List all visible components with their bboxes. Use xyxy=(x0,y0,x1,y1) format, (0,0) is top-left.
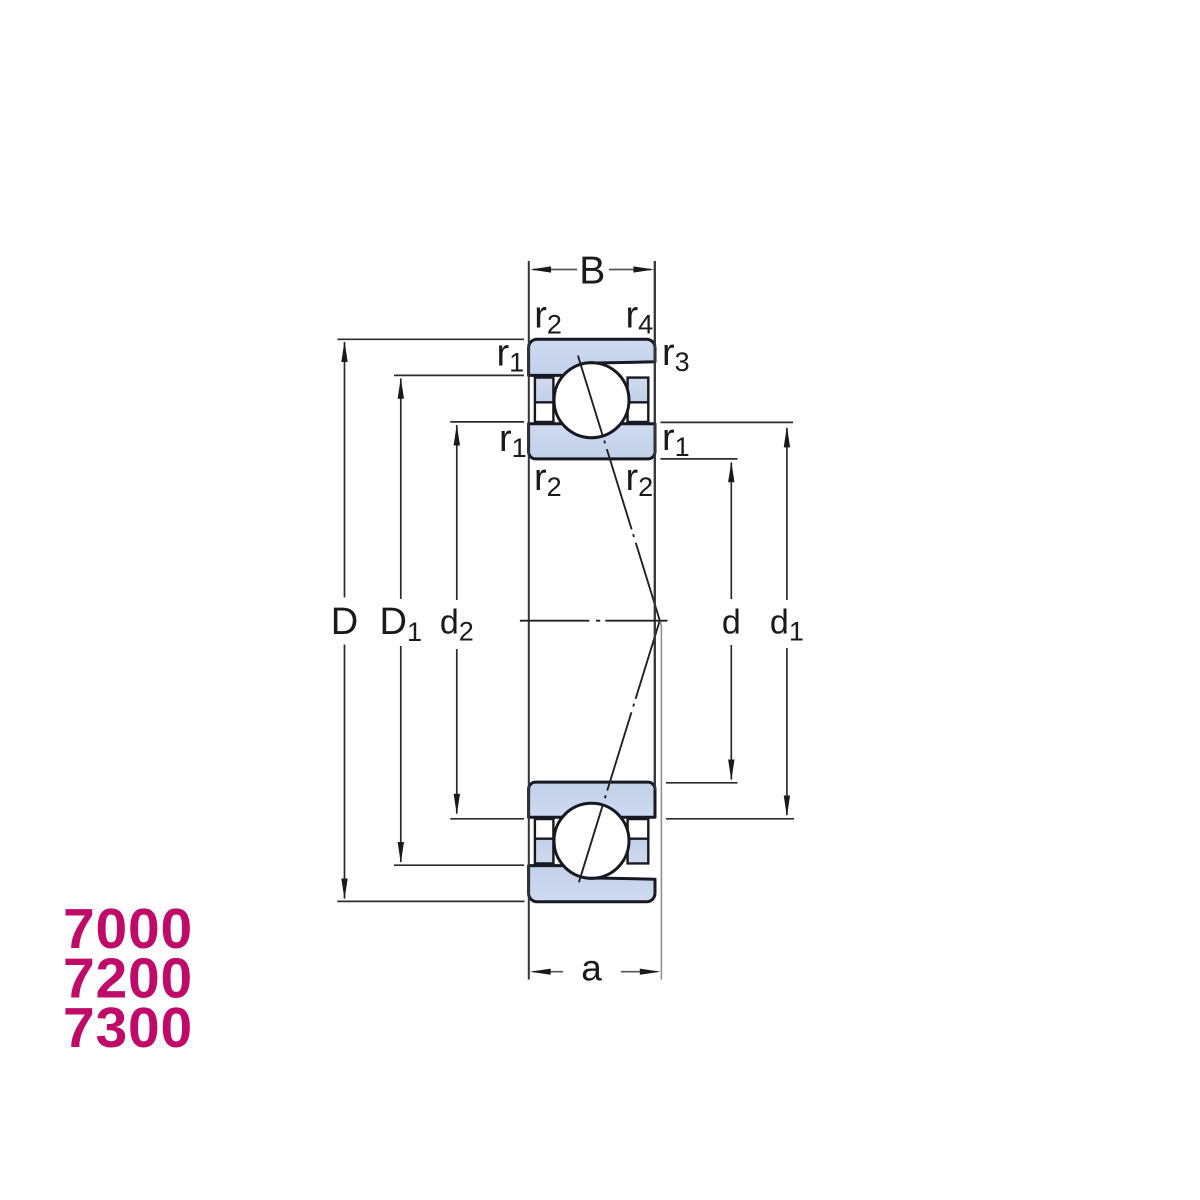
svg-text:r3: r3 xyxy=(662,332,690,377)
extension line D bottom xyxy=(337,900,524,902)
axis centre line xyxy=(520,620,668,622)
extension line D1 bottom xyxy=(394,864,524,866)
svg-text:r1: r1 xyxy=(662,417,690,462)
dimension line B xyxy=(530,266,654,272)
lower bearing section (mirrored) xyxy=(529,782,655,902)
extension line D1 top xyxy=(394,374,524,376)
extension line d2 bottom xyxy=(450,818,524,820)
contact angle line lower xyxy=(578,621,660,886)
dimension line d2 xyxy=(454,425,460,815)
svg-text:r4: r4 xyxy=(626,295,654,340)
svg-text:D1: D1 xyxy=(380,601,422,647)
pressure centre extension line xyxy=(660,621,662,980)
extension line d1 bottom xyxy=(666,818,794,820)
dimension line a xyxy=(530,969,661,975)
svg-text:d: d xyxy=(722,604,741,642)
svg-text:d1: d1 xyxy=(770,604,804,647)
upper bearing section xyxy=(529,339,655,459)
svg-text:B: B xyxy=(579,250,605,293)
extension line d2 top xyxy=(450,421,524,423)
svg-text:D: D xyxy=(331,601,358,643)
svg-text:r2: r2 xyxy=(534,295,562,340)
dimension line D1 xyxy=(398,378,404,863)
extension line d top xyxy=(661,458,738,460)
dimension line D xyxy=(341,341,347,900)
svg-text:r1: r1 xyxy=(499,418,527,463)
right face extension line xyxy=(654,261,656,790)
extension line D top xyxy=(337,338,524,340)
extension line d bottom xyxy=(666,782,738,784)
svg-text:d2: d2 xyxy=(440,604,474,647)
dimension line d xyxy=(728,461,734,780)
svg-text:a: a xyxy=(581,948,602,989)
svg-text:r2: r2 xyxy=(534,457,562,502)
dimension line d1 xyxy=(784,426,790,816)
contact angle line upper xyxy=(578,356,660,621)
svg-text:7300: 7300 xyxy=(63,996,193,1060)
left face extension line xyxy=(528,261,530,980)
extension line d1 top xyxy=(661,421,794,423)
svg-text:r2: r2 xyxy=(626,457,654,502)
